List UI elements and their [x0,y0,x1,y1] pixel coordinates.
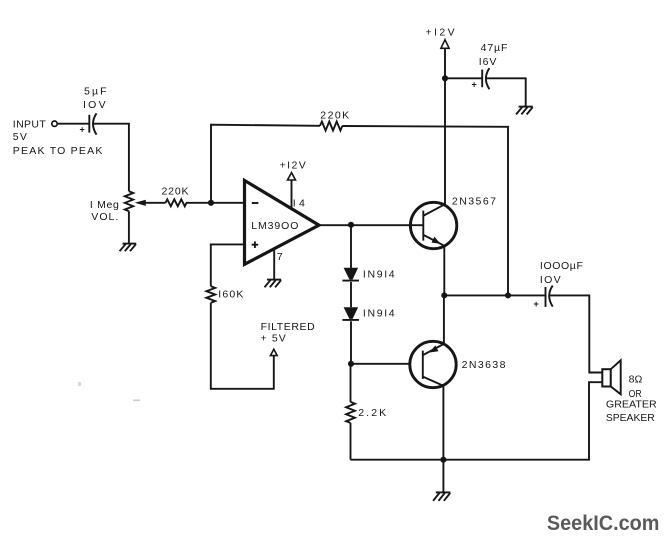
svg-text:220K: 220K [162,186,189,198]
svg-text:I Meg: I Meg [90,199,119,211]
svg-text:I60K: I60K [218,289,243,301]
svg-text:GREATER: GREATER [606,399,657,411]
svg-text:I6V: I6V [479,56,497,68]
svg-text:FILTERED: FILTERED [261,321,316,333]
svg-text:+ 5V: + 5V [261,332,286,344]
svg-text:LM39OO: LM39OO [251,220,298,232]
svg-text:PEAK TO PEAK: PEAK TO PEAK [13,145,103,157]
svg-text:+: + [534,299,539,309]
svg-text:IN9I4: IN9I4 [363,307,395,319]
svg-text:7: 7 [277,251,283,263]
svg-text:2.2K: 2.2K [358,407,386,419]
svg-text:220K: 220K [320,109,349,121]
svg-text:VOL.: VOL. [91,211,118,223]
svg-text:IN9I4: IN9I4 [363,268,395,280]
svg-text:2N3638: 2N3638 [462,359,506,371]
svg-text:5V: 5V [13,131,27,143]
svg-text:5µF: 5µF [84,86,107,98]
svg-text:IOOOµF: IOOOµF [540,260,583,272]
svg-text:+: + [472,80,477,90]
svg-text:INPUT: INPUT [13,118,47,130]
svg-text:SPEAKER: SPEAKER [606,412,655,424]
svg-text:8Ω: 8Ω [629,374,643,386]
svg-text:+: + [80,125,85,135]
svg-text:+I2V: +I2V [426,27,455,39]
svg-text:I4: I4 [293,197,305,209]
svg-text:+I2V: +I2V [280,160,306,172]
svg-text:47µF: 47µF [481,42,508,54]
svg-text:2N3567: 2N3567 [452,195,496,207]
svg-text:SeekIC.com: SeekIC.com [547,511,660,535]
